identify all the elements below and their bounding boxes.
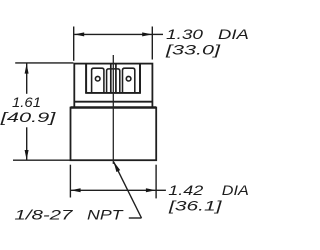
lower body outline — [71, 108, 157, 161]
svg-text:[33.0]: [33.0] — [164, 42, 221, 58]
arrow top-right — [142, 32, 152, 36]
bottom dim tail — [156, 189, 166, 191]
slot left rounded rect — [92, 68, 104, 93]
left dim extension bottom — [13, 159, 71, 161]
cap body outline — [74, 64, 152, 108]
top dim extension line right — [151, 27, 153, 60]
leader diagonal — [114, 162, 142, 218]
arrow left-dim up — [25, 64, 29, 74]
left dim extension top — [15, 62, 73, 64]
arrow bottom-right — [146, 188, 156, 192]
svg-text:DIA: DIA — [222, 182, 249, 198]
bottom dim extension right — [155, 165, 157, 199]
top dim tail — [152, 33, 163, 35]
blade line right — [115, 64, 117, 93]
leader tail — [129, 217, 142, 219]
bottom dim line — [71, 189, 156, 191]
svg-text:1.30: 1.30 — [166, 26, 203, 42]
svg-text:1/8-27: 1/8-27 — [14, 207, 74, 223]
svg-text:1.61: 1.61 — [12, 94, 41, 110]
svg-text:1.42: 1.42 — [168, 182, 203, 198]
svg-text:DIA: DIA — [218, 26, 249, 42]
left dim line lower segment — [26, 127, 28, 160]
bottom dim extension left — [69, 165, 71, 198]
svg-text:[36.1]: [36.1] — [168, 197, 224, 213]
arrow top-left — [74, 32, 84, 36]
top dim line — [74, 33, 152, 35]
shoulder thick top edge — [71, 106, 157, 109]
screw circle right — [126, 76, 131, 81]
slot right rounded rect — [123, 68, 135, 93]
slot center rounded rect — [107, 69, 120, 93]
recess right wall — [139, 64, 141, 93]
left dim line upper segment — [26, 63, 28, 94]
svg-text:[40.9]: [40.9] — [0, 109, 57, 125]
recess bottom — [85, 92, 141, 94]
recess left wall — [85, 64, 87, 93]
arrow left-dim down — [25, 150, 29, 160]
centerline — [112, 55, 114, 164]
svg-text:NPT: NPT — [87, 207, 124, 223]
top dim extension line left — [73, 27, 75, 61]
screw circle left — [95, 76, 100, 81]
arrow leader — [114, 162, 121, 173]
cap lower rim line — [74, 101, 152, 103]
arrow bottom-left — [71, 188, 81, 192]
blade line left — [110, 64, 112, 93]
